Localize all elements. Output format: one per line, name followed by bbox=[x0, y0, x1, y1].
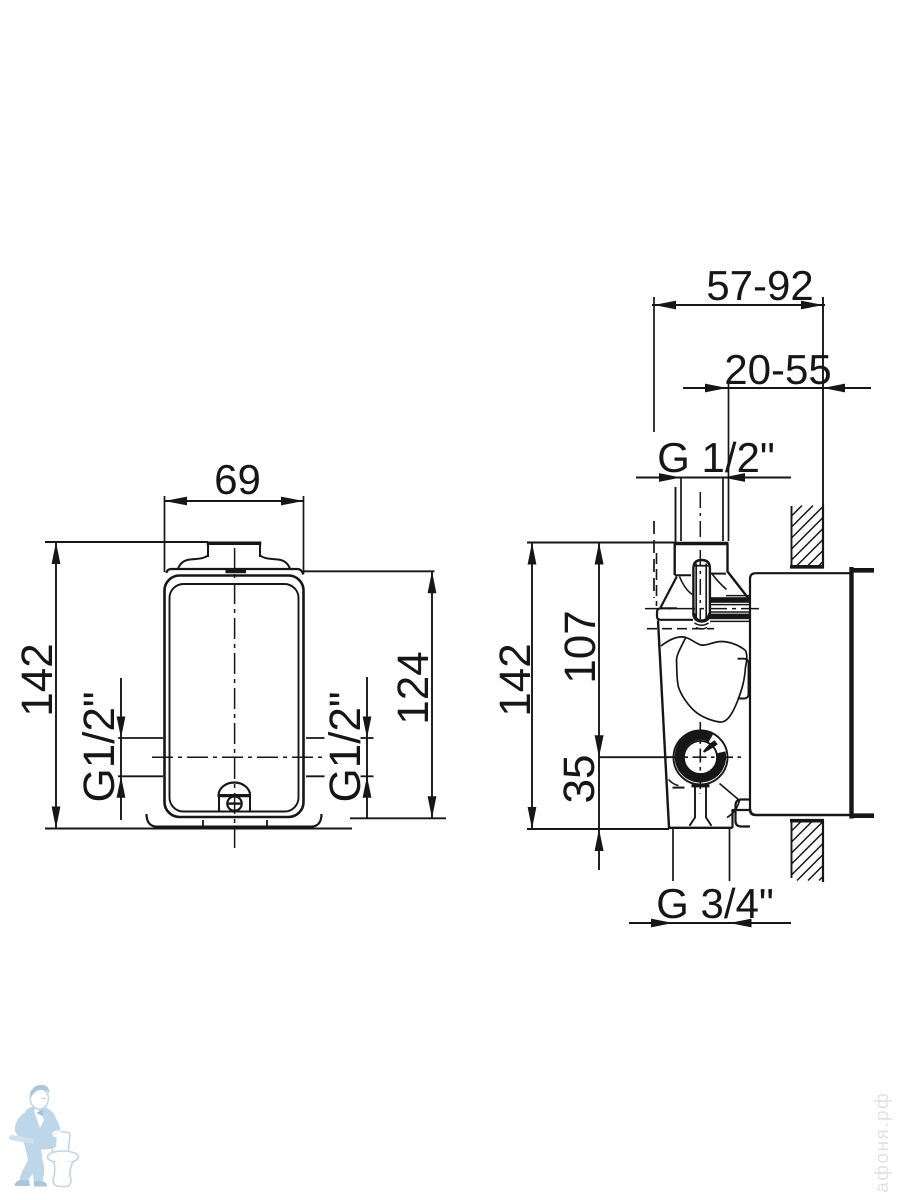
front body outer shell bbox=[165, 576, 304, 818]
dim 20-55 text bbox=[726, 355, 830, 385]
toilet seat bbox=[48, 1151, 79, 1163]
dim G34 text bbox=[658, 888, 772, 919]
dim 69 ext right bbox=[303, 496, 305, 574]
dim G12 top text bbox=[659, 442, 773, 473]
dim 124 arrow bottom bbox=[428, 796, 437, 818]
dim G12 right dash bottom bbox=[306, 775, 325, 777]
dim 69 arrow right bbox=[281, 497, 304, 506]
wall top section right edge bbox=[822, 505, 824, 567]
side body top block bold top bbox=[674, 542, 729, 546]
dim G12 top arrow left bbox=[659, 473, 681, 482]
side body top block right edge and flare bbox=[728, 544, 749, 599]
dim G12 left text bbox=[82, 693, 114, 800]
side stem left line bbox=[690, 787, 696, 826]
side body hidden left dashed edge bbox=[656, 553, 658, 606]
front base plate bbox=[147, 814, 322, 827]
side body socket arcs below capsule bbox=[695, 623, 709, 629]
dim G12 left tick bottom bbox=[118, 775, 163, 777]
dim G12 right arrow bottom bbox=[363, 776, 372, 798]
front top tab bold top edge bbox=[207, 542, 262, 545]
plumber hair bbox=[31, 1085, 49, 1098]
side body left ledge bbox=[675, 574, 691, 576]
plumber shirt bbox=[34, 1108, 44, 1128]
side body right ledge bbox=[710, 573, 726, 575]
side body left slant edge bbox=[658, 621, 669, 828]
dim 57-92 ext left solid bbox=[653, 297, 655, 432]
dim 107-35 shared line bbox=[598, 543, 600, 871]
front base tick right bbox=[266, 820, 268, 827]
front left shoulder bbox=[178, 556, 208, 569]
wall bottom section top edge bold bbox=[790, 819, 824, 823]
dim G12 right dash top bbox=[306, 737, 325, 739]
front screw plate bold line bbox=[218, 794, 252, 797]
dim G12 left tick top bbox=[118, 737, 163, 739]
dim 124 arrow top bbox=[428, 571, 437, 593]
front cap dark block bbox=[226, 568, 247, 573]
box bracket top tick bold bbox=[850, 568, 874, 573]
side nipple thin line bottom bbox=[710, 620, 750, 622]
dim 20-55 arrow left bbox=[705, 384, 727, 393]
dim 142 side line bbox=[531, 543, 533, 830]
plumber bow tie bbox=[37, 1110, 43, 1116]
dim 107-35 arrow middle bbox=[595, 735, 604, 757]
dim 57-92 ext right bbox=[822, 297, 824, 506]
side body right tab bbox=[738, 659, 749, 699]
dim G34 line bbox=[629, 922, 791, 924]
box top edge bbox=[756, 572, 852, 574]
wall top hatch bbox=[792, 506, 824, 567]
side body cartridge inner lines bbox=[696, 564, 706, 619]
dim 142 front text bbox=[21, 646, 52, 714]
dim G12 top line bbox=[636, 477, 791, 479]
dim 124 text bbox=[397, 653, 428, 722]
side top pipe centerline bbox=[699, 492, 701, 619]
FRONT-VIEW bbox=[21, 465, 446, 848]
side body bottom right step bbox=[733, 810, 751, 828]
SIDE-VIEW bbox=[499, 271, 874, 928]
side body wavy contour upper bbox=[661, 637, 746, 651]
front right shoulder bbox=[260, 556, 290, 569]
side nipple thin line above bottom bar bbox=[710, 611, 750, 613]
dim G12 top ext right bbox=[722, 478, 724, 542]
plumber left arm with wrench bbox=[15, 1112, 31, 1140]
side body bottom face bbox=[668, 827, 733, 829]
wrench bbox=[9, 1135, 34, 1144]
dim G12 right line bbox=[366, 677, 368, 819]
dim 142 front line bbox=[55, 542, 57, 829]
side port bottom boss bold bbox=[692, 784, 710, 787]
side left ledge dash at port bbox=[673, 787, 685, 789]
dim G12 left line bbox=[120, 678, 122, 820]
wall bottom section right edge bbox=[822, 821, 824, 882]
dim G12 left arrow top bbox=[117, 717, 126, 739]
dim G34 arrow right bbox=[730, 919, 752, 928]
dim G12 top arrow right bbox=[723, 473, 745, 482]
side nipple thin line below top bar bbox=[710, 604, 750, 606]
dim G12 right text bbox=[328, 693, 360, 800]
dim G12 left arrow bottom bbox=[117, 776, 126, 798]
front body inner shell bbox=[170, 584, 299, 812]
side port thick ring with keyway gap bbox=[679, 736, 722, 779]
side body left ear bbox=[657, 608, 693, 620]
side nipple black bar top bbox=[710, 597, 750, 603]
box bottom edge bbox=[750, 809, 852, 815]
side body right pocket curve bbox=[713, 575, 727, 590]
side lower-right boss curve bbox=[727, 801, 740, 818]
side nipple thin line top bbox=[726, 595, 750, 597]
side body upper-left diagonal edge bbox=[661, 577, 677, 608]
dim 20-55 arrow right bbox=[823, 384, 845, 393]
side rear boss at box bbox=[736, 800, 751, 827]
dim G12 top ext left bbox=[680, 478, 682, 542]
front base tick left bbox=[202, 820, 204, 827]
side body cartridge cross tick bbox=[695, 565, 709, 567]
dim 124 line bbox=[431, 571, 433, 818]
front top tab bbox=[208, 544, 260, 557]
dim G12 right cross tick top bbox=[361, 737, 374, 739]
dim 20-55 ext left bbox=[728, 380, 730, 541]
side body right contour bbox=[746, 651, 747, 668]
side lower-right contour diagonal bbox=[720, 784, 740, 801]
dim 124 bottom tick bbox=[350, 817, 446, 819]
side bottom tick bbox=[527, 828, 669, 830]
dim 107 arrow top bbox=[595, 543, 604, 565]
dim 142 side arrow bottom bbox=[528, 807, 537, 829]
plumber rear leg bbox=[30, 1150, 44, 1182]
front horizontal centerline bbox=[152, 756, 326, 758]
side body cartridge capsule bottom bold arc bbox=[694, 614, 710, 622]
dim 57-92 arrow right bbox=[801, 301, 823, 310]
side top tick bbox=[527, 542, 674, 544]
side left ledge curve at port bbox=[669, 780, 679, 786]
dim 69 ext left bbox=[164, 496, 166, 572]
dim 69 arrow left bbox=[165, 497, 188, 506]
dim 35 text bbox=[563, 756, 594, 801]
dim 69 line bbox=[165, 500, 304, 502]
side body left pocket curve bbox=[680, 577, 693, 595]
front cap seam line bbox=[167, 569, 304, 575]
dim 142 front arrow top bbox=[52, 542, 61, 564]
front screw head bbox=[227, 796, 241, 810]
wall bottom section left edge bbox=[791, 821, 793, 878]
plumber legs bbox=[20, 1143, 42, 1184]
dim 107 text bbox=[564, 613, 595, 681]
plumber jacket body bbox=[22, 1106, 57, 1150]
side body cartridge capsule outer bbox=[693, 560, 710, 621]
plumber hand on tank bbox=[52, 1131, 62, 1138]
dim 142 front top tick bbox=[45, 541, 208, 543]
wall top section left edge bbox=[791, 506, 793, 567]
dim G12 right arrow top bbox=[363, 717, 372, 739]
side hidden dashed line bbox=[647, 628, 714, 630]
dim 57-92 line bbox=[652, 304, 825, 306]
front vertical centerline bbox=[234, 548, 236, 848]
dim G34 arrow left bbox=[651, 919, 673, 928]
dim G12 right cross tick bottom bbox=[361, 775, 374, 777]
dim 142 front bottom tick bbox=[45, 828, 352, 830]
plumber head bbox=[30, 1089, 49, 1110]
dim 69 text bbox=[216, 465, 259, 495]
box bracket vertical bold bbox=[849, 567, 853, 819]
wall top section bottom edge bold bbox=[790, 565, 824, 569]
side port keyway hook bbox=[703, 740, 718, 752]
box bracket bottom tick bold bbox=[850, 813, 874, 818]
side port vertical centerline bbox=[699, 722, 701, 794]
dim 57-92 text bbox=[708, 271, 812, 301]
plumber face details bbox=[42, 1097, 45, 1100]
side body wavy blob bbox=[677, 637, 746, 722]
box left edge bbox=[750, 573, 756, 809]
side port horizontal centerline bbox=[666, 756, 741, 758]
watermark vertical text bbox=[874, 1094, 892, 1192]
dim 57-92 ext left dashed bbox=[653, 521, 655, 598]
side body top block left edge bbox=[674, 544, 676, 576]
side port outer circle bbox=[674, 731, 728, 785]
dim G34 ext right bbox=[729, 829, 731, 881]
LOGO plumber mascot bbox=[9, 1085, 79, 1187]
side middle tick bbox=[599, 756, 676, 758]
side nipple centerline bbox=[645, 608, 762, 610]
side pipe outer left edge bbox=[675, 487, 677, 543]
dim 142 side arrow top bbox=[528, 543, 537, 565]
wall bottom hatch bbox=[792, 822, 824, 881]
dim 124 top tick bbox=[304, 570, 435, 572]
dim G34 ext left bbox=[672, 829, 674, 881]
front screw slot bbox=[229, 802, 241, 804]
toilet tank bbox=[50, 1132, 70, 1156]
side stem right line bbox=[706, 787, 712, 826]
dim 142 front arrow bottom bbox=[52, 807, 61, 829]
dim 57-92 arrow left bbox=[654, 301, 676, 310]
front screw box bbox=[219, 796, 250, 812]
side nipple black bar bottom bbox=[710, 614, 750, 620]
dim 20-55 line bbox=[683, 387, 871, 389]
dim 35 arrow bottom bbox=[595, 829, 604, 851]
plumber arm to tank bbox=[44, 1113, 60, 1136]
plumber shoes bbox=[15, 1180, 30, 1186]
toilet pedestal bbox=[53, 1162, 73, 1187]
front screw dome bbox=[219, 783, 251, 796]
dim 142 side text bbox=[499, 646, 530, 714]
side port inner circle bbox=[684, 741, 717, 774]
